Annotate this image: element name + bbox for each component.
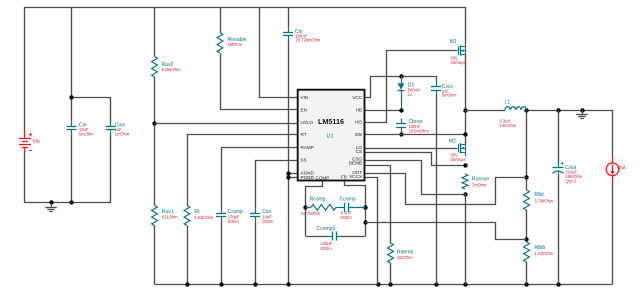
wire VCCX to ground bus xyxy=(366,178,378,285)
wire LO to M2 gate xyxy=(365,148,458,150)
svg-text:2.2nF: 2.2nF xyxy=(341,210,352,215)
battery Vin xyxy=(24,130,26,139)
resistor Rcomp xyxy=(311,204,336,210)
capacitor Cvcc xyxy=(436,82,438,87)
node Cin top junction xyxy=(69,95,73,99)
svg-text:0Ohm: 0Ohm xyxy=(228,219,240,224)
wire Rfbb bottom lead xyxy=(526,262,528,284)
ground output ground symbol xyxy=(582,110,584,114)
node CSG junction xyxy=(463,192,467,196)
resistor Ruv1 xyxy=(152,206,158,226)
svg-text:UVLO: UVLO xyxy=(301,120,314,125)
svg-text:VCCX: VCCX xyxy=(349,174,362,179)
transistor M1 xyxy=(458,46,460,55)
node AGND junction xyxy=(286,171,290,175)
wire Iout drop xyxy=(612,110,614,157)
node FB divider junction xyxy=(524,237,528,241)
capacitor Css xyxy=(255,208,257,213)
wire HO to M1 gate xyxy=(366,51,458,123)
svg-text:COMP: COMP xyxy=(316,175,330,180)
resistor Rfbb xyxy=(524,242,530,262)
svg-text:CS: CS xyxy=(356,149,362,154)
svg-text:M2: M2 xyxy=(449,139,456,145)
svg-text:20.726mOhm: 20.726mOhm xyxy=(296,38,321,43)
wire Rfbt-Rfbb link xyxy=(526,210,528,242)
node Rfbb bus junction xyxy=(524,282,528,286)
wire Renable column xyxy=(220,8,222,33)
wire PGND stub xyxy=(288,177,297,179)
wire Cio / AGND column xyxy=(288,8,290,28)
svg-text:DEMB: DEMB xyxy=(349,160,362,165)
svg-text:HB: HB xyxy=(356,107,362,112)
svg-text:PGND: PGND xyxy=(301,175,315,180)
wire Vout sense vertical xyxy=(526,110,528,190)
node SW pin junction xyxy=(463,132,467,136)
capacitor Cramp xyxy=(221,208,223,213)
resistor Rsense xyxy=(462,174,468,189)
wire Ruv2 divider column xyxy=(154,8,156,57)
node CS junction xyxy=(463,163,467,167)
svg-text:Rfbt: Rfbt xyxy=(534,192,544,198)
node Rcomp left junction xyxy=(303,205,307,209)
svg-text:RAMP: RAMP xyxy=(301,145,314,150)
node Cout tap junction xyxy=(556,108,560,112)
svg-text:1.21kOhm: 1.21kOhm xyxy=(534,251,553,256)
wire Cin bottom lead xyxy=(71,134,73,203)
node Rt bus junction xyxy=(185,282,189,286)
wire D1 anode stub xyxy=(401,76,403,83)
node AGND bus junction xyxy=(286,282,290,286)
wire Cin branch from top bus xyxy=(71,8,73,122)
svg-text:5mOhm: 5mOhm xyxy=(442,93,457,98)
wire OUT pin sense route xyxy=(366,174,527,205)
ground input ground symbol xyxy=(51,203,53,207)
node FB output junction xyxy=(363,220,367,224)
resistor Rt xyxy=(184,206,190,226)
capacitor Cout polarized xyxy=(558,163,560,168)
node PGND junction xyxy=(286,175,290,179)
svg-text:20Amps: 20Amps xyxy=(451,157,466,162)
wire CSG sense line xyxy=(366,161,466,195)
wire RT to Rt column xyxy=(188,135,298,206)
node output ground junction xyxy=(580,108,584,112)
node Css bus junction xyxy=(253,282,257,286)
wire HB to bootstrap node xyxy=(365,110,401,112)
inductor L1 xyxy=(505,107,527,110)
svg-text:23.7kOhm: 23.7kOhm xyxy=(301,211,320,216)
wire Vin negative to ground rail xyxy=(25,135,111,203)
svg-text:Vin: Vin xyxy=(33,139,40,145)
svg-text:0Ohm: 0Ohm xyxy=(321,246,333,251)
svg-text:FB: FB xyxy=(341,174,347,179)
capacitor Cboot xyxy=(401,119,403,124)
node UVLO divider junction xyxy=(152,121,156,125)
svg-text:SS: SS xyxy=(301,158,307,163)
svg-text:Rcomp: Rcomp xyxy=(310,196,326,202)
node OUT sense junction xyxy=(524,175,528,179)
svg-text:1MOhm: 1MOhm xyxy=(228,42,243,47)
svg-text:Qty=2: Qty=2 xyxy=(565,178,577,183)
wire Vout line L1 to load xyxy=(465,110,505,112)
svg-text:Ccomp: Ccomp xyxy=(340,196,356,202)
wire Cvcc bottom lead xyxy=(436,95,438,284)
svg-text:3.79kOhm: 3.79kOhm xyxy=(534,198,553,203)
current source Iout xyxy=(612,157,614,163)
svg-text:Rfbb: Rfbb xyxy=(534,245,545,251)
wire Ccomp2 row xyxy=(306,236,328,238)
transistor M2 xyxy=(458,144,460,153)
wire RAMP to Cramp column xyxy=(222,148,298,209)
wire Rdemb bottom lead xyxy=(390,263,392,284)
svg-text:1mOhm: 1mOhm xyxy=(115,131,130,136)
resistor Rdemb xyxy=(388,243,394,263)
node Cboot bottom junction xyxy=(399,132,403,136)
wire FB to divider xyxy=(366,223,527,240)
node SW-L1 junction xyxy=(463,108,467,112)
wire D1 cathode to HB xyxy=(401,91,403,111)
svg-text:29.6mOhm: 29.6mOhm xyxy=(409,128,430,133)
svg-text:8.25kOhm: 8.25kOhm xyxy=(162,67,181,72)
wire VCC to Cvcc xyxy=(366,77,437,98)
svg-text:14mOhm: 14mOhm xyxy=(500,123,517,128)
node Rsense bus junction xyxy=(463,282,467,286)
svg-text:EN: EN xyxy=(301,107,307,112)
svg-text:M1: M1 xyxy=(450,39,457,45)
svg-text:5mOhm: 5mOhm xyxy=(79,131,94,136)
node Cvcc bus junction xyxy=(434,282,438,286)
wire Cout bottom lead xyxy=(558,175,560,285)
wire AGND stub xyxy=(288,173,297,175)
op-amp U1 LM5116 controller box xyxy=(298,90,365,181)
svg-text:VIN: VIN xyxy=(301,95,309,100)
svg-text:HO: HO xyxy=(355,120,362,125)
wire COMP hook to compensation rail xyxy=(306,182,323,237)
wire Cout top lead xyxy=(558,110,560,163)
node Cin bottom junction xyxy=(69,200,73,204)
node ground tap junction xyxy=(49,200,53,204)
wire M1 source / M2 drain vertical xyxy=(465,55,467,145)
svg-text:Iout: Iout xyxy=(617,165,626,171)
svg-text:7mOhm: 7mOhm xyxy=(472,183,487,188)
svg-text:20Amps: 20Amps xyxy=(451,60,466,65)
wire VIN pin feed xyxy=(260,8,298,98)
wire Rsense bottom to bus xyxy=(465,194,467,284)
svg-text:0Ohm: 0Ohm xyxy=(262,219,274,224)
capacitor Cin xyxy=(71,121,73,126)
wire Rcomp-Ccomp row xyxy=(306,207,311,209)
svg-text:931Ohm: 931Ohm xyxy=(162,214,178,219)
wire UVLO to IC xyxy=(155,123,298,125)
capacitor Ccomp xyxy=(344,203,346,212)
svg-text:10kOhm: 10kOhm xyxy=(397,255,413,260)
svg-text:0Ohm: 0Ohm xyxy=(341,215,353,220)
resistor Rfbt xyxy=(524,190,530,210)
diode D1 xyxy=(398,83,405,90)
wire SS to Css column xyxy=(256,161,298,209)
capacitor Ccomp2 xyxy=(332,232,334,241)
node Rdemb bus junction xyxy=(388,282,392,286)
wire top bus Vin rail xyxy=(25,8,466,131)
svg-text:LM5116: LM5116 xyxy=(318,117,344,126)
node HB bootstrap junction xyxy=(399,108,403,112)
node Cramp bus junction xyxy=(219,282,223,286)
wire SW pin line xyxy=(365,134,465,136)
resistor Renable xyxy=(217,33,223,54)
svg-text:SW: SW xyxy=(355,132,363,137)
wire Iout bottom lead to ground bus xyxy=(612,181,614,284)
node Rfbt tap junction xyxy=(524,108,528,112)
capacitor Cinx xyxy=(110,121,112,126)
svg-text:VCC: VCC xyxy=(352,95,362,100)
svg-text:5.23kOhm: 5.23kOhm xyxy=(194,215,213,220)
node Ccomp right junction xyxy=(363,205,367,209)
wire DEMB to Rdemb xyxy=(366,166,391,244)
svg-text:RT: RT xyxy=(301,132,307,137)
svg-text:1A: 1A xyxy=(408,92,413,97)
capacitor Cio xyxy=(288,27,290,32)
node Cout bus junction xyxy=(556,282,560,286)
wire bottom ground bus xyxy=(155,284,613,286)
node VCCX bus junction xyxy=(376,282,380,286)
node D1 anode junction xyxy=(399,74,403,78)
wire CS sense line xyxy=(366,153,466,166)
svg-text:L1: L1 xyxy=(505,100,511,106)
svg-text:Ccomp2: Ccomp2 xyxy=(317,226,336,232)
wire Cin-Cinx top link xyxy=(72,98,111,122)
resistor Ruv2 xyxy=(152,57,158,78)
wire FB hook to compensation rail xyxy=(345,182,366,237)
svg-text:U1: U1 xyxy=(327,134,334,140)
